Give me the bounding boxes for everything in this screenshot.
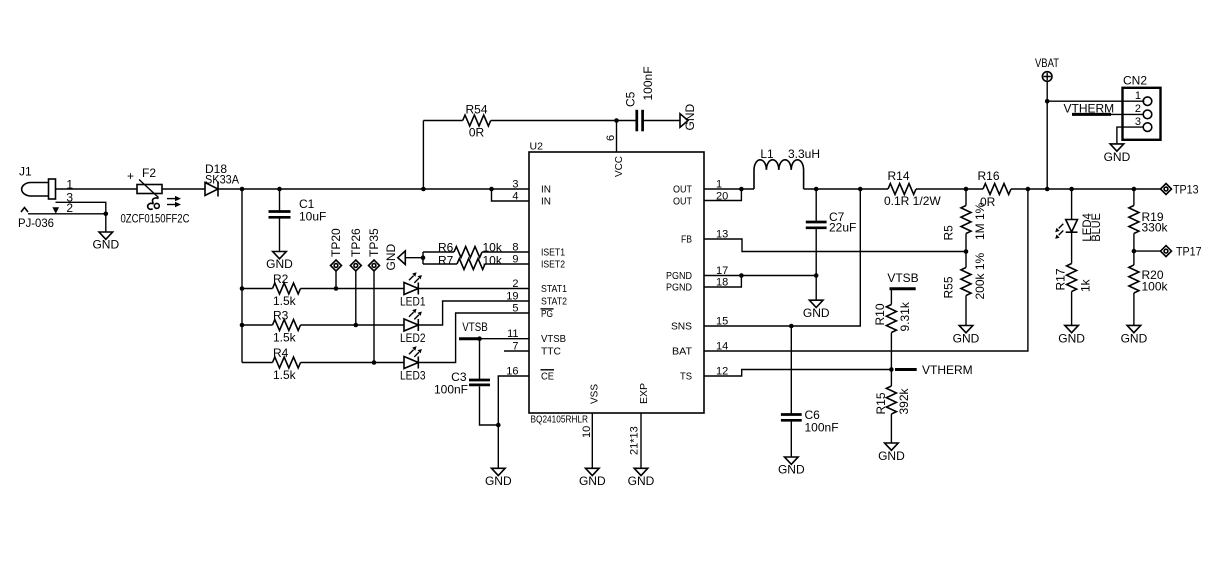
ground GND (R55) [953,326,980,346]
svg-text:VSS: VSS [590,384,601,404]
svg-text:GND: GND [579,474,606,488]
ground GND (EXP) [628,468,655,488]
svg-text:R17: R17 [1054,268,1068,290]
svg-text:2: 2 [1135,103,1141,115]
diode D18 SK33A [205,162,239,197]
svg-text:LED1: LED1 [400,295,426,309]
wire SNS vertical [704,189,860,326]
IC U2 BQ24105RHLR [529,141,704,426]
svg-text:0ZCF0150FF2C: 0ZCF0150FF2C [121,212,190,226]
svg-text:VTSB: VTSB [541,334,566,345]
node C1 tap [277,187,282,192]
LED LED1 [400,272,529,308]
inductor L1 3.3uH [754,147,820,189]
svg-text:IN: IN [541,185,551,196]
svg-text:TS: TS [680,372,692,383]
svg-text:R55: R55 [942,276,956,298]
svg-text:7: 7 [512,341,518,353]
wire F2 to D18 [162,188,205,190]
wire VCC pin 6 [616,121,618,153]
svg-text:GND: GND [778,463,805,477]
ground GND (R15) [878,443,905,463]
svg-text:R5: R5 [942,225,956,241]
wire junction to ground [105,214,107,232]
svg-text:9: 9 [512,254,518,266]
ground GND (C1) [266,252,293,272]
svg-text:TTC: TTC [541,347,561,358]
node R19 tap [1132,187,1137,192]
svg-text:VTSB: VTSB [887,271,918,285]
svg-text:TP35: TP35 [367,228,381,257]
svg-text:TP26: TP26 [349,228,363,257]
node VBAT on rail [1045,187,1050,192]
svg-text:10uF: 10uF [299,210,326,224]
capacitor C7 22uF [806,189,857,300]
svg-text:BQ24105RHLR: BQ24105RHLR [531,414,589,426]
wire IN pin 4 [492,189,530,201]
wire FB pin13 [704,239,966,252]
capacitor C6 100nF [781,326,839,457]
svg-text:9.31k: 9.31k [898,301,912,331]
wire OUT pin20 [704,189,741,201]
node C6 tap on SNS [789,324,794,329]
LED LED3 [400,313,529,383]
resistor R15 392k [874,370,911,444]
svg-text:0.1R 1/2W: 0.1R 1/2W [884,194,941,208]
svg-text:PG: PG [541,309,553,320]
wire J1 pin2 [28,213,106,215]
svg-text:PGND: PGND [666,271,692,282]
svg-text:R16: R16 [977,169,999,183]
svg-text:4: 4 [512,191,518,203]
node TP17 junction [1132,249,1137,254]
node PGND/C7 junction [814,273,819,278]
resistor R10 9.31k [873,289,912,370]
svg-text:BAT: BAT [672,347,692,358]
resistor R54 0R [423,103,616,190]
svg-text:GND: GND [878,449,905,463]
svg-text:GND: GND [953,332,980,346]
wire J1 pin3 [56,202,106,214]
ground GND (C6) [778,457,805,477]
resistor R55 200k 1% [942,252,988,326]
wire OUT pin1 [704,188,754,190]
svg-text:8: 8 [512,242,518,254]
testpoint TP20 [329,228,343,289]
svg-text:EXP: EXP [639,383,650,404]
node PGND join [739,273,744,278]
resistor R7 10k [423,254,529,270]
svg-text:100nF: 100nF [805,421,839,435]
node C3/CE junction [496,423,501,428]
ground GND (ISET) [384,244,423,271]
resistor R19 330k [1129,189,1169,265]
svg-text:3: 3 [512,179,518,191]
svg-text:R14: R14 [887,169,909,183]
svg-text:CN2: CN2 [1123,74,1147,88]
node R54 tap on main rail [421,187,426,192]
svg-text:C5: C5 [624,91,638,107]
wire TS pin12 to VTHERM [704,370,891,377]
svg-text:VTSB: VTSB [462,320,488,334]
svg-text:10k: 10k [483,254,503,268]
ground GND (R17) [1058,325,1085,345]
wire BAT pin14 [704,189,1028,351]
wire J1 pin1 to F2 [56,188,138,190]
svg-text:SNS: SNS [671,322,692,333]
svg-text:0R: 0R [469,126,485,140]
node OUT join [739,187,744,192]
wire VSS pin 10 [591,413,593,468]
svg-text:100nF: 100nF [434,383,468,397]
svg-text:TP17: TP17 [1176,245,1202,259]
node J1 pin2/3 junction [104,212,109,217]
svg-text:GND: GND [1058,331,1085,345]
svg-text:GND: GND [485,474,512,488]
resistor R3 1.5k [242,309,404,345]
svg-text:22uF: 22uF [829,221,856,235]
node LED4 tap [1069,187,1074,192]
node rail-R3 [240,323,245,328]
resistor R5 1M 1% [942,189,988,252]
capacitor C3 100nF [434,339,498,425]
resistor R6 10k [423,241,529,258]
svg-text:U2: U2 [530,141,544,153]
node C7 tap [814,187,819,192]
node main rail junction [240,187,245,192]
resistor R2 1.5k [242,272,404,308]
svg-text:VTHERM: VTHERM [922,363,973,377]
svg-text:PJ-036: PJ-036 [18,216,54,230]
fuse F2 0ZCF0150FF2C [121,166,190,226]
svg-text:ISET2: ISET2 [541,260,565,271]
ground GND (C5) [680,104,697,131]
svg-text:5: 5 [512,303,518,315]
node VTHERM junction [889,367,894,372]
node SNS tap [858,187,863,192]
svg-text:OUT: OUT [673,185,692,196]
svg-text:GND: GND [628,474,655,488]
svg-text:F2: F2 [142,166,156,180]
wire ISET join [422,252,424,264]
svg-text:CE: CE [541,372,554,383]
node R5 tap [964,187,969,192]
power flag VBAT [1035,56,1060,189]
wire PGND pin17 [704,275,816,277]
node C5/VCC junction [614,118,619,123]
testpoint TP13 [1161,183,1199,197]
net label VTHERM (CN2 pin2) [1064,102,1144,116]
svg-text:1.5k: 1.5k [273,368,297,382]
node IN pin4 junction [489,187,494,192]
ground GND (R20) [1121,325,1148,345]
svg-text:GND: GND [384,244,398,271]
LED LED4 BLUE [1055,189,1103,264]
svg-text:392k: 392k [897,387,911,414]
svg-text:100nF: 100nF [641,66,655,100]
svg-text:STAT1: STAT1 [541,284,567,295]
node VTSB/C3 junction [477,336,482,341]
wire CN2 pin1 [1047,100,1144,102]
svg-text:IN: IN [541,197,551,208]
svg-text:R54: R54 [465,103,487,117]
ground GND (J1) [92,232,119,252]
svg-text:19: 19 [506,291,518,303]
svg-text:VBAT: VBAT [1035,56,1060,70]
wire left rail [241,189,243,363]
svg-text:VCC: VCC [614,156,625,177]
node TP20-R2 [334,286,339,291]
testpoint TP17 [1134,245,1202,259]
svg-text:PGND: PGND [666,283,692,294]
svg-text:1k: 1k [1079,278,1093,292]
wire CE pin16 to ground [498,376,529,468]
svg-text:R7: R7 [438,254,454,268]
svg-text:LED2: LED2 [400,331,426,345]
node ISET GND junction [421,255,426,260]
capacitor C5 100nF [617,66,681,131]
svg-text:GND: GND [92,238,119,252]
svg-text:TP20: TP20 [329,228,343,257]
wire CN2 pin3 to ground [1117,127,1143,144]
testpoint TP26 [349,228,363,325]
svg-text:6: 6 [605,135,617,141]
svg-text:11: 11 [507,328,518,340]
node CN2 pin1 tap [1045,99,1050,104]
connector J1 [18,165,73,231]
svg-text:STAT2: STAT2 [541,297,567,308]
node FB junction [964,249,969,254]
svg-text:100k: 100k [1142,280,1169,294]
svg-text:3: 3 [1135,116,1141,128]
svg-text:BLUE: BLUE [1089,213,1103,242]
wire PGND pin18 [704,276,741,288]
node TP26-R3 [354,323,359,328]
net label VTSB [459,320,529,339]
svg-text:10: 10 [581,426,593,438]
svg-text:+: + [127,169,134,183]
svg-text:GND: GND [803,306,830,320]
svg-text:21*13: 21*13 [629,426,641,455]
svg-text:FB: FB [681,235,692,246]
LED LED2 [400,301,529,345]
svg-text:ISET1: ISET1 [541,248,565,259]
wire EXP pad [640,413,642,468]
ground GND (C3/CE) [485,468,512,488]
svg-text:OUT: OUT [673,197,692,208]
node BAT tap [1026,187,1031,192]
resistor R16 0R [977,169,1160,209]
svg-text:GND: GND [683,104,697,131]
node TP35-R4 [372,360,377,365]
wire D18 to IC IN [218,188,529,190]
ground GND (CN2) [1104,144,1131,164]
svg-text:R10: R10 [873,303,887,325]
svg-text:GND: GND [266,257,293,271]
resistor R17 1k [1054,264,1093,326]
wire L1 to R14 [804,188,888,190]
svg-text:1M 1%: 1M 1% [973,202,987,240]
ground GND (C7) [803,300,830,320]
svg-text:1.5k: 1.5k [273,331,297,345]
net label VTHERM [895,363,973,377]
svg-text:200k 1%: 200k 1% [973,252,987,299]
testpoint TP35 [367,228,381,363]
svg-text:TP13: TP13 [1173,183,1199,197]
svg-text:16: 16 [506,366,518,378]
node rail-R2 [240,286,245,291]
svg-text:2: 2 [66,201,73,215]
ground GND (VSS) [579,468,606,488]
svg-text:2: 2 [512,278,518,290]
connector CN2 [1123,74,1161,140]
resistor R4 1.5k [242,346,404,382]
resistor R14 0.1R 1/2W [884,169,983,208]
net label VTSB (R10) [887,271,918,289]
svg-text:L1: L1 [760,147,774,161]
wire TTC stub [504,350,529,352]
svg-text:3.3uH: 3.3uH [788,147,820,161]
svg-text:J1: J1 [19,165,32,179]
svg-text:1.5k: 1.5k [273,294,297,308]
capacitor C1 10uF [269,189,327,252]
svg-text:GND: GND [1104,150,1131,164]
svg-text:GND: GND [1121,331,1148,345]
resistor R20 100k [1129,265,1169,325]
svg-text:330k: 330k [1142,221,1169,235]
svg-text:1: 1 [1135,90,1141,102]
svg-text:R15: R15 [874,392,888,414]
svg-text:LED3: LED3 [400,369,426,383]
